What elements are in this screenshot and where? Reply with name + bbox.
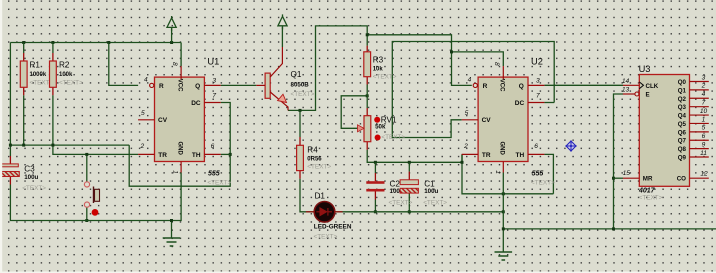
resistor R1 body: [20, 61, 27, 87]
wire U2 DC link: [544, 102, 554, 104]
svg-text:Q2: Q2: [678, 96, 687, 103]
svg-text:1000k: 1000k: [30, 72, 47, 78]
svg-text:TH: TH: [516, 152, 525, 159]
junction R4 top: [299, 109, 302, 112]
svg-text:Q6: Q6: [678, 129, 687, 136]
op-amp U1 555 body: [155, 77, 205, 161]
transistor Q1 emitter arrow: [278, 94, 287, 102]
potentiometer RV1 wiper arrow: [358, 125, 365, 132]
svg-text:2: 2: [140, 143, 145, 150]
svg-text:5: 5: [702, 125, 706, 132]
wire bottom rail right: [503, 228, 716, 230]
power terminal arrow 1: [167, 16, 176, 31]
svg-text:100u: 100u: [424, 188, 438, 195]
junction top rail U1 reset: [107, 41, 110, 44]
wire Q1 collector up: [281, 27, 283, 47]
svg-text:R: R: [483, 83, 488, 90]
led D1 pins: [306, 211, 343, 213]
svg-text:VCC: VCC: [176, 79, 182, 92]
svg-text:1: 1: [702, 116, 706, 123]
svg-text:5: 5: [141, 110, 145, 117]
svg-text:7: 7: [536, 93, 540, 100]
wire R4 bottom pin: [299, 171, 301, 179]
U3 pin Q8 stub: [690, 148, 709, 150]
U2 pin R bubble: [473, 83, 477, 87]
wire R2 bottom to U1 TR: [53, 95, 138, 154]
svg-text:<TEXT>: <TEXT>: [531, 179, 555, 186]
svg-text:3: 3: [212, 78, 216, 85]
svg-text:U3: U3: [639, 64, 651, 74]
wire RV1 bottom pin: [366, 142, 368, 150]
svg-text:11: 11: [700, 150, 707, 157]
svg-text:U2: U2: [531, 57, 543, 67]
counter U3 4017 body: [639, 75, 689, 187]
svg-text:R2: R2: [59, 61, 70, 70]
wire C3 node horizontal: [10, 144, 129, 146]
U1 pin VCC stub: [180, 66, 182, 79]
wire trigger loop: [129, 103, 230, 187]
wire RV1 top pin: [366, 108, 368, 116]
svg-text:<TEXT>: <TEXT>: [207, 179, 231, 186]
wire R3 top pin: [366, 46, 368, 52]
U3 pin Q5 stub: [690, 122, 709, 124]
svg-text:2: 2: [463, 143, 468, 150]
resistor R3 body: [364, 52, 371, 77]
transistor Q1 base bar: [265, 73, 270, 98]
wire RV1 wiper: [341, 96, 367, 129]
U3 pin CLK stub: [623, 84, 639, 86]
svg-text:VCC: VCC: [499, 79, 505, 92]
U3 pin MR stub: [623, 177, 639, 179]
svg-text:C3: C3: [24, 165, 35, 174]
wire R4 bottom to LED: [300, 179, 306, 212]
svg-text:E: E: [646, 92, 650, 99]
junction U2 gnd link: [502, 192, 505, 195]
svg-text:6: 6: [702, 133, 706, 140]
wire U2 TR drop: [462, 154, 553, 193]
wire R1 bottom pin: [23, 87, 25, 95]
junction button top: [85, 153, 88, 156]
wire C3 top pin: [9, 156, 11, 164]
resistor R4 body: [297, 145, 304, 170]
U2 pin GND stub: [502, 162, 504, 173]
junction top rail power arrow: [170, 41, 173, 44]
U1 pin TH stub: [204, 153, 220, 155]
origin marker blue diamond: [565, 140, 577, 152]
svg-text:Q1: Q1: [678, 87, 687, 94]
svg-text:Q0: Q0: [678, 79, 687, 86]
wire U2 CV net: [392, 42, 554, 138]
wire R4 top wire: [299, 110, 301, 137]
U1 pin Q stub: [204, 84, 220, 86]
button state dot: [92, 209, 99, 216]
svg-text:4: 4: [144, 76, 148, 83]
power terminal arrow 2: [278, 14, 287, 29]
U3 pin E stub: [623, 93, 635, 95]
wire C1 top wire: [408, 162, 410, 171]
svg-text:<TEXT>: <TEXT>: [639, 195, 663, 202]
wire R2 top pin: [52, 53, 54, 61]
wire C3 bottom pin: [9, 177, 11, 185]
junction top rail R1: [22, 41, 25, 44]
wire button bottom: [86, 207, 88, 221]
svg-text:9: 9: [702, 141, 706, 148]
wire R1 bottom wire: [23, 95, 25, 145]
op-amp U2 555 body: [478, 77, 528, 161]
wire C2 bottom pin: [374, 192, 376, 200]
svg-text:12: 12: [700, 170, 708, 177]
wire U1 TH link: [221, 153, 230, 155]
led D1 symbol: [316, 208, 332, 216]
wire R3 bottom pin: [366, 77, 368, 85]
svg-text:<TEXT>: <TEXT>: [307, 163, 331, 170]
junction C2 bottom: [374, 210, 377, 213]
svg-text:555: 555: [532, 171, 544, 178]
U2 pin TH stub: [528, 153, 544, 155]
svg-text:Q7: Q7: [678, 138, 687, 145]
transistor Q1 base pin: [256, 84, 265, 86]
svg-text:1: 1: [494, 170, 501, 174]
wire U1 reset from rail: [109, 43, 138, 86]
wire R1 top pin: [23, 53, 25, 61]
wire power arrow1 stem: [171, 27, 173, 43]
junction C3 node R2: [51, 144, 54, 147]
svg-text:100k: 100k: [59, 72, 73, 78]
svg-text:2: 2: [701, 83, 706, 90]
U1 pin GND stub: [180, 162, 182, 173]
svg-text:10: 10: [700, 108, 708, 115]
capacitor C3 plate top: [2, 164, 19, 167]
capacitor C1 plate bottom hatched: [400, 188, 418, 193]
svg-text:7: 7: [702, 99, 706, 106]
svg-text:6: 6: [534, 143, 538, 150]
wire U2 gnd drop: [502, 173, 504, 253]
svg-text:C2: C2: [390, 180, 401, 189]
resistor R2 body: [50, 61, 57, 87]
svg-text:14: 14: [622, 78, 630, 85]
wire R2 bottom pin: [52, 87, 54, 95]
svg-text:<TEXT>: <TEXT>: [423, 199, 447, 206]
junction ground1: [170, 219, 173, 222]
svg-text:6: 6: [211, 143, 215, 150]
junction C2 top: [374, 161, 377, 164]
svg-text:13: 13: [622, 86, 630, 93]
wire R4 top pin: [299, 137, 301, 145]
wire C2 top wire: [374, 162, 376, 173]
svg-text:R3: R3: [373, 56, 384, 65]
svg-text:Q: Q: [519, 83, 524, 90]
svg-text:CO: CO: [677, 176, 686, 183]
svg-text:D1: D1: [315, 192, 326, 201]
svg-text:CV: CV: [482, 117, 492, 124]
svg-text:R: R: [159, 83, 164, 90]
svg-text:Q5: Q5: [678, 121, 687, 128]
transistor Q1 emitter: [270, 92, 288, 110]
button plunger: [93, 187, 95, 204]
svg-text:CV: CV: [158, 117, 168, 124]
svg-text:Q: Q: [195, 83, 200, 90]
svg-text:Q4: Q4: [678, 113, 687, 120]
svg-text:R1: R1: [30, 61, 41, 70]
svg-text:8050B: 8050B: [291, 82, 310, 89]
U2 pin DC stub: [528, 102, 544, 104]
svg-text:15: 15: [623, 170, 631, 177]
svg-text:MR: MR: [643, 176, 653, 183]
U3 pin Q4 stub: [690, 114, 709, 116]
svg-text:<TEXT>: <TEXT>: [314, 233, 338, 240]
svg-text:3: 3: [536, 78, 540, 85]
svg-text:U1: U1: [207, 57, 219, 67]
svg-text:<TEXT>: <TEXT>: [389, 199, 413, 206]
U2 pin CV stub: [462, 119, 478, 121]
wire U2 vcc jog: [452, 52, 504, 66]
wire U2 TH link: [544, 154, 553, 193]
svg-text:4: 4: [468, 76, 472, 83]
junction top rail R2: [51, 41, 54, 44]
svg-text:50k: 50k: [375, 124, 386, 131]
button terminal bottom circle: [84, 202, 89, 207]
wire LED node: [306, 211, 503, 213]
svg-text:DC: DC: [191, 100, 201, 107]
svg-text:TR: TR: [482, 152, 491, 159]
U3 pin Q9 stub: [690, 156, 709, 158]
svg-text:555: 555: [208, 171, 220, 178]
svg-text:10k: 10k: [373, 66, 384, 72]
wire bottom rail left: [10, 173, 181, 221]
U2 pin VCC stub: [502, 66, 504, 79]
svg-text:GND: GND: [499, 142, 505, 156]
wire C1 bottom pin: [408, 193, 410, 201]
svg-text:3: 3: [702, 74, 706, 81]
svg-text:Q3: Q3: [678, 104, 687, 111]
wire C1 bottom wire: [408, 201, 410, 212]
potentiometer RV1 body: [364, 116, 371, 142]
U3 pin Q2 stub: [690, 97, 709, 99]
svg-text:C1: C1: [424, 180, 435, 189]
wire R3-RV1 link: [366, 85, 368, 109]
ground symbol 2: [495, 252, 513, 260]
wire RV1 bottom: [367, 150, 462, 163]
U2 pin TR stub: [462, 153, 478, 155]
wire top rail: [10, 42, 181, 44]
U3 pin Q0 stub: [690, 81, 709, 83]
RV1 state dot lower: [375, 135, 381, 141]
svg-text:DC: DC: [515, 100, 525, 107]
wire button top: [86, 154, 88, 181]
ground symbol 1: [163, 238, 181, 246]
junction C1 top: [408, 161, 411, 164]
wire Q1 emitter node: [288, 26, 367, 111]
wire C1 top pin: [408, 172, 410, 180]
wire ground1 drop: [171, 221, 173, 239]
wire R1 top wire: [23, 43, 25, 54]
svg-text:LED-GREEN: LED-GREEN: [314, 223, 352, 230]
wire U1 vcc: [180, 43, 182, 67]
svg-text:<TEXT>: <TEXT>: [22, 185, 46, 192]
junction bottom rail right: [502, 227, 505, 230]
wire U1 Q to Q1 base: [221, 84, 256, 86]
U1 pin DC stub: [204, 102, 220, 104]
svg-text:4: 4: [702, 91, 706, 98]
U1 pin CV stub: [138, 119, 154, 121]
junction C1 bottom: [408, 210, 411, 213]
U1 pin R bubble: [150, 83, 154, 87]
svg-text:Q1: Q1: [291, 70, 302, 79]
U2 pin Q stub: [528, 84, 544, 86]
svg-text:GND: GND: [176, 142, 182, 156]
wire R2 top wire: [52, 43, 54, 54]
svg-text:Q8: Q8: [678, 146, 687, 153]
wire U2 Q to U3 CLK: [544, 84, 623, 86]
svg-text:4017: 4017: [638, 187, 656, 194]
U3 pin Q1 stub: [690, 89, 709, 91]
U3 pin CO stub: [690, 177, 709, 179]
wire C2 bottom wire: [374, 200, 376, 212]
svg-text:CLK: CLK: [646, 83, 659, 90]
junction LED node gnd: [502, 210, 505, 213]
button terminal top circle: [84, 182, 89, 187]
svg-text:0R56: 0R56: [307, 156, 322, 162]
RV1 state dot upper: [374, 117, 380, 123]
svg-text:7: 7: [212, 93, 216, 100]
capacitor C3 plate bottom hatched: [1, 172, 20, 177]
junction RV1 top wiper: [366, 94, 369, 97]
svg-text:Q9: Q9: [678, 155, 687, 162]
wire U3 E to rail: [614, 94, 624, 229]
junction U3 MR: [612, 177, 615, 180]
junction U1 TH: [229, 153, 232, 156]
U3 pin Q3 stub: [690, 106, 709, 108]
svg-text:TH: TH: [192, 152, 201, 159]
svg-text:TR: TR: [158, 152, 167, 159]
svg-text:8: 8: [493, 62, 500, 66]
junction U2 vcc jog: [450, 50, 453, 53]
wire R3 to U2 reset: [367, 35, 472, 86]
capacitor C1 plate top: [400, 180, 418, 185]
svg-text:<TEXT>: <TEXT>: [291, 91, 315, 98]
U1 pin TR stub: [138, 153, 154, 155]
svg-text:100u: 100u: [24, 174, 38, 181]
svg-text:1: 1: [172, 170, 179, 174]
wire C2 top pin: [374, 173, 376, 181]
wire C3 top branch: [9, 43, 11, 157]
junction C3 node left: [9, 144, 12, 147]
junction U2 TR trigger: [461, 161, 464, 164]
svg-text:<TEXT>: <TEXT>: [381, 134, 405, 141]
svg-text:<TEXT>: <TEXT>: [373, 73, 397, 80]
svg-text:5: 5: [465, 110, 469, 117]
U3 pin Q6 stub: [690, 131, 709, 133]
capacitor C2 plate top: [366, 181, 384, 184]
capacitor C2 plate bottom: [366, 189, 384, 192]
svg-text:8: 8: [171, 62, 178, 66]
U3 pin Q7 stub: [690, 139, 709, 141]
transistor Q1 collector: [270, 47, 282, 77]
junction U3 E rail: [612, 227, 615, 230]
junction R3 wireB: [366, 33, 369, 36]
junction C3 node R1: [22, 144, 25, 147]
svg-text:R4: R4: [307, 146, 318, 155]
junction button bottom rail: [85, 219, 88, 222]
led D1 body: [314, 202, 335, 223]
wire U3 MR link: [614, 177, 624, 179]
svg-text:<TEXT>: <TEXT>: [59, 80, 83, 87]
